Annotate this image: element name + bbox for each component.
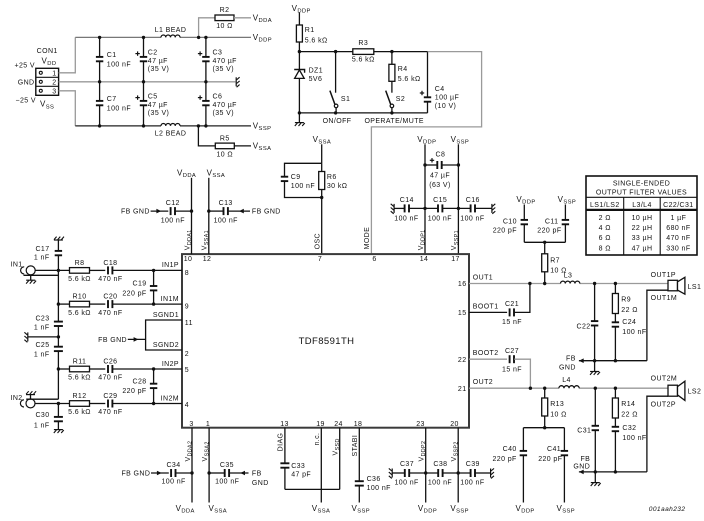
svg-text:17: 17	[451, 256, 460, 263]
svg-text:L1 BEAD: L1 BEAD	[155, 27, 187, 34]
pin label VDDA2	[185, 441, 194, 462]
label C38	[428, 461, 452, 487]
label OUT2M	[651, 375, 678, 382]
wire VDDA1	[190, 178, 193, 254]
svg-text:OUT2P: OUT2P	[651, 401, 676, 408]
svg-text:(35 V): (35 V)	[213, 110, 234, 117]
svg-text:1 nF: 1 nF	[34, 325, 50, 332]
svg-text:680 nF: 680 nF	[666, 225, 690, 232]
svg-text:C35: C35	[220, 462, 234, 469]
FB GND arrow sgnd	[98, 337, 145, 344]
svg-text:ON/OFF: ON/OFF	[323, 118, 352, 125]
svg-text:C18: C18	[103, 260, 117, 267]
svg-text:220 pF: 220 pF	[122, 388, 146, 395]
resistor R11	[57, 358, 106, 381]
svg-text:L2 BEAD: L2 BEAD	[155, 130, 187, 137]
svg-text:LS2: LS2	[688, 388, 702, 395]
svg-text:C23: C23	[35, 315, 49, 322]
capacitor C32	[612, 425, 647, 472]
svg-text:C38: C38	[433, 461, 447, 468]
resistor R4	[389, 52, 421, 93]
svg-text:SINGLE-ENDED: SINGLE-ENDED	[613, 180, 670, 187]
connector CON1	[36, 68, 59, 95]
svg-text:14: 14	[420, 256, 429, 263]
label VSSA osc	[313, 135, 332, 146]
svg-text:470 nF: 470 nF	[98, 310, 122, 317]
svg-text:C9: C9	[291, 174, 301, 181]
wire VSSA2	[207, 428, 210, 503]
svg-text:6 Ω: 6 Ω	[599, 235, 611, 242]
svg-text:FB: FB	[566, 356, 576, 363]
svg-text:C30: C30	[35, 412, 49, 419]
svg-text:C26: C26	[103, 358, 117, 365]
svg-text:(35 V): (35 V)	[213, 66, 234, 73]
svg-text:FB: FB	[580, 456, 590, 463]
resistor R8	[35, 260, 105, 283]
capacitor C5	[135, 82, 169, 126]
label VSSP stabi	[352, 504, 371, 515]
svg-text:1 nF: 1 nF	[34, 255, 50, 262]
pin label VSSA2	[202, 441, 211, 461]
svg-text:10 Ω: 10 Ω	[550, 411, 567, 418]
input bus lower	[57, 351, 59, 399]
svg-text:5.6 kΩ: 5.6 kΩ	[352, 56, 375, 63]
svg-text:100 nF: 100 nF	[215, 478, 239, 485]
capacitor C30	[34, 404, 63, 430]
svg-text:100 µF: 100 µF	[435, 94, 459, 101]
wire VSSP rail	[75, 125, 251, 127]
resistor R2	[199, 7, 251, 37]
loudspeaker LS1	[647, 277, 701, 360]
svg-text:47 µF: 47 µF	[430, 173, 450, 180]
capacitor C12	[121, 200, 192, 224]
pin label VDDP2	[419, 441, 428, 462]
svg-text:220 pF: 220 pF	[537, 228, 561, 235]
svg-text:47 µH: 47 µH	[632, 245, 653, 252]
pin label VSSP2	[451, 441, 460, 461]
svg-text:OUT2: OUT2	[473, 379, 493, 386]
connector IN1	[11, 261, 59, 280]
resistor R1	[296, 13, 327, 52]
svg-text:1 µF: 1 µF	[671, 215, 687, 222]
svg-text:L4: L4	[562, 377, 571, 384]
svg-text:C33: C33	[291, 463, 305, 470]
svg-text:5.6 kΩ: 5.6 kΩ	[68, 409, 91, 416]
op-amp U1 TDF8591TH body	[182, 254, 469, 428]
label IN2M	[161, 395, 179, 402]
label VDDA	[253, 13, 272, 24]
wire VDDP2	[425, 428, 427, 503]
chassis tap input bus	[24, 332, 60, 342]
svg-text:DIAG: DIAG	[278, 433, 285, 452]
capacitor C24	[612, 319, 647, 361]
doc number	[649, 506, 686, 513]
svg-text:OUT1M: OUT1M	[651, 295, 678, 302]
svg-text:BOOT1: BOOT1	[473, 303, 499, 310]
svg-text:C22/C31: C22/C31	[663, 202, 693, 209]
svg-text:R1: R1	[305, 27, 315, 34]
ground C30	[54, 430, 64, 433]
svg-text:FB GND: FB GND	[252, 209, 281, 216]
svg-text:22 µH: 22 µH	[632, 225, 653, 232]
svg-text:47 pF: 47 pF	[291, 472, 311, 479]
svg-text:7: 7	[318, 256, 322, 263]
label BOOT1	[473, 303, 499, 310]
capacitor C2	[135, 37, 169, 81]
svg-text:(35 V): (35 V)	[148, 66, 169, 73]
svg-text:C40: C40	[503, 446, 517, 453]
svg-text:IN2M: IN2M	[161, 395, 179, 402]
ground out1	[590, 361, 600, 375]
wire BOOT1	[469, 311, 507, 313]
svg-text:C6: C6	[213, 93, 223, 100]
wire CON1 pin1	[59, 37, 76, 72]
svg-text:C21: C21	[505, 301, 519, 308]
svg-text:100 nF: 100 nF	[460, 216, 484, 223]
pin numbers left	[185, 270, 193, 409]
wire nc VSSA	[320, 428, 322, 503]
svg-text:47 µF: 47 µF	[148, 58, 168, 65]
CON1 labels	[15, 48, 58, 110]
svg-text:C36: C36	[367, 476, 381, 483]
svg-text:22 Ω: 22 Ω	[621, 307, 638, 314]
svg-text:C17: C17	[35, 246, 49, 253]
switch S1	[330, 52, 350, 113]
svg-text:330 nF: 330 nF	[666, 245, 690, 252]
svg-text:470 nF: 470 nF	[98, 409, 122, 416]
capacitor C17	[34, 237, 64, 271]
svg-text:16: 16	[458, 281, 467, 288]
label VSSP bottom	[450, 504, 469, 515]
svg-text:C22: C22	[577, 323, 591, 330]
svg-text:470 nF: 470 nF	[666, 235, 690, 242]
resistor R10	[57, 294, 106, 317]
svg-text:R13: R13	[550, 401, 564, 408]
FB GND rail out1	[559, 356, 647, 372]
svg-text:SGND1: SGND1	[153, 312, 179, 319]
ferrite bead L2	[155, 124, 187, 138]
junction dots OUT1	[528, 282, 617, 285]
svg-text:C1: C1	[107, 52, 117, 59]
svg-text:220 pF: 220 pF	[538, 456, 562, 463]
capacitor C9	[281, 163, 322, 197]
svg-text:470 nF: 470 nF	[98, 276, 122, 283]
wire VSSA to osc	[321, 144, 323, 163]
label VSSP	[253, 122, 272, 133]
svg-text:3: 3	[52, 89, 56, 96]
wire mode rail	[299, 51, 427, 53]
capacitor C22	[577, 284, 599, 361]
wire OUT1	[469, 283, 668, 285]
label OUT1	[473, 274, 493, 281]
pin label VDDP1	[418, 229, 427, 250]
svg-text:R10: R10	[72, 294, 86, 301]
svg-text:2: 2	[185, 351, 189, 358]
svg-text:GND: GND	[252, 480, 269, 487]
svg-text:1: 1	[52, 71, 56, 78]
resistor R13	[542, 388, 567, 428]
svg-text:C15: C15	[433, 197, 447, 204]
wire VSSP1	[457, 144, 459, 254]
svg-text:1 nF: 1 nF	[34, 351, 50, 358]
svg-text:10 Ω: 10 Ω	[217, 152, 234, 159]
svg-text:GND: GND	[18, 80, 35, 87]
label C15	[428, 197, 452, 223]
svg-text:13: 13	[280, 421, 289, 428]
svg-text:C4: C4	[435, 86, 445, 93]
label OUT1P	[651, 272, 676, 279]
svg-text:IN1: IN1	[11, 261, 23, 268]
snubber join ch2	[523, 426, 564, 429]
svg-text:C19: C19	[133, 281, 147, 288]
svg-text:100 nF: 100 nF	[214, 217, 238, 224]
svg-text:5.6 kΩ: 5.6 kΩ	[68, 375, 91, 382]
svg-text:FB GND: FB GND	[121, 471, 150, 478]
label OPERATE/MUTE	[364, 118, 424, 125]
svg-text:21: 21	[458, 386, 467, 393]
capacitor C19	[122, 270, 157, 304]
svg-text:24: 24	[334, 421, 343, 428]
capacitor C40	[492, 428, 527, 503]
wire CON1 pin2 GND rail	[59, 81, 236, 83]
svg-text:OPERATE/MUTE: OPERATE/MUTE	[364, 118, 424, 125]
label VSSA	[253, 142, 272, 153]
svg-text:C37: C37	[400, 461, 414, 468]
svg-text:20: 20	[450, 421, 459, 428]
capacitor C18	[57, 260, 182, 283]
svg-text:33 µH: 33 µH	[632, 235, 653, 242]
FB GND rail out2	[573, 456, 646, 474]
svg-text:C34: C34	[166, 462, 180, 469]
svg-text:C12: C12	[166, 200, 180, 207]
svg-text:220 pF: 220 pF	[492, 456, 516, 463]
svg-text:GND: GND	[559, 364, 576, 371]
chassis ground GND rail	[236, 77, 239, 87]
label OUT2P	[651, 401, 676, 408]
resistor R12	[35, 393, 105, 416]
ground DZ1	[295, 113, 305, 126]
capacitor C1	[96, 37, 131, 81]
wire MODE route	[371, 52, 481, 255]
label IN1M	[161, 296, 179, 303]
svg-text:IN1M: IN1M	[161, 296, 179, 303]
svg-text:−25 V: −25 V	[16, 97, 37, 104]
wire snubber join	[524, 241, 565, 244]
svg-text:C13: C13	[219, 200, 233, 207]
svg-text:C10: C10	[503, 218, 517, 225]
svg-text:22 Ω: 22 Ω	[621, 412, 638, 419]
ground out2	[591, 472, 601, 486]
svg-text:C14: C14	[400, 197, 414, 204]
label BOOT2	[473, 350, 499, 357]
svg-text:R2: R2	[220, 7, 230, 14]
svg-text:10 µH: 10 µH	[632, 215, 653, 222]
junction dots OUT2	[529, 387, 617, 390]
svg-text:470 µF: 470 µF	[213, 102, 237, 109]
svg-text:30 kΩ: 30 kΩ	[327, 183, 347, 190]
svg-text:5.6 kΩ: 5.6 kΩ	[305, 37, 328, 44]
pin label MODE	[364, 227, 371, 250]
svg-text:2: 2	[52, 80, 56, 87]
pin label OSC	[315, 233, 322, 249]
svg-text:C31: C31	[577, 427, 591, 434]
wire CON1 pin3	[59, 91, 76, 126]
zener diode DZ1	[294, 52, 323, 113]
junction dots power rails	[98, 36, 208, 128]
capacitor C13	[209, 200, 281, 224]
svg-text:100 nF: 100 nF	[161, 217, 185, 224]
svg-text:19: 19	[316, 421, 325, 428]
capacitor C3	[198, 37, 237, 81]
label VDDA top	[177, 169, 196, 180]
switch S2	[386, 91, 405, 113]
wire VDDP1	[424, 144, 426, 254]
resistor R9	[612, 284, 637, 323]
svg-text:100 nF: 100 nF	[291, 183, 315, 190]
wire OUT2	[469, 387, 668, 389]
svg-text:4: 4	[185, 402, 189, 409]
pin label VSSP1	[451, 230, 460, 250]
svg-text:IN2P: IN2P	[162, 361, 179, 368]
capacitor C26	[98, 358, 182, 381]
svg-text:470 µF: 470 µF	[213, 58, 237, 65]
label VDDP	[253, 33, 272, 44]
svg-text:100 nF: 100 nF	[460, 480, 484, 487]
svg-text:12: 12	[203, 256, 212, 263]
svg-text:C41: C41	[547, 446, 561, 453]
svg-text:OUT1: OUT1	[473, 274, 493, 281]
label VDDA bottom	[176, 504, 195, 515]
svg-text:R4: R4	[398, 66, 408, 73]
svg-text:FB GND: FB GND	[121, 209, 150, 216]
label OUT1M	[651, 295, 678, 302]
svg-text:OUT2M: OUT2M	[651, 375, 678, 382]
pin numbers bottom	[189, 421, 458, 428]
capacitor C7	[96, 82, 131, 126]
svg-text:220 pF: 220 pF	[122, 290, 146, 297]
svg-text:C39: C39	[466, 461, 480, 468]
label SGND2	[153, 342, 179, 349]
svg-text:R12: R12	[72, 393, 86, 400]
label IN1P	[162, 262, 179, 269]
svg-text:CON1: CON1	[37, 48, 58, 55]
svg-text:R6: R6	[327, 174, 337, 181]
svg-text:C29: C29	[103, 393, 117, 400]
pin label VSSD	[333, 438, 342, 455]
svg-text:STABI: STABI	[352, 435, 359, 457]
capacitor C6	[198, 82, 237, 126]
svg-text:IN2: IN2	[11, 395, 23, 402]
svg-text:L3/L4: L3/L4	[632, 202, 652, 209]
svg-text:C16: C16	[466, 197, 480, 204]
svg-text:S1: S1	[341, 96, 350, 103]
svg-text:001aah232: 001aah232	[649, 506, 686, 513]
svg-text:FB GND: FB GND	[98, 337, 127, 344]
svg-text:C28: C28	[133, 378, 147, 385]
svg-text:2 Ω: 2 Ω	[599, 215, 611, 222]
svg-text:R3: R3	[358, 40, 368, 47]
label VDDP bottom	[418, 504, 437, 515]
svg-text:15 nF: 15 nF	[502, 366, 522, 373]
pin label VDDA1	[184, 229, 193, 250]
svg-text:23: 23	[416, 421, 425, 428]
label VSSP dec	[451, 135, 470, 146]
svg-text:C2: C2	[148, 49, 158, 56]
svg-text:100 nF: 100 nF	[394, 216, 418, 223]
wire bus to IN2 sleeve	[26, 398, 58, 400]
label VSSA nc	[312, 504, 331, 515]
svg-text:5.6 kΩ: 5.6 kΩ	[68, 310, 91, 317]
svg-text:3: 3	[189, 421, 193, 428]
svg-text:GND: GND	[573, 464, 590, 471]
label VDDP ch2	[516, 504, 535, 515]
svg-text:100 nF: 100 nF	[367, 485, 391, 492]
svg-text:10: 10	[184, 256, 193, 263]
svg-text:C5: C5	[148, 93, 158, 100]
capacitor C33 DIAG loop	[280, 428, 339, 490]
svg-text:470 nF: 470 nF	[98, 375, 122, 382]
svg-text:10 Ω: 10 Ω	[216, 23, 233, 30]
svg-text:OUTPUT FILTER VALUES: OUTPUT FILTER VALUES	[596, 190, 687, 197]
resistor R14	[612, 388, 637, 427]
svg-text:+25 V: +25 V	[15, 63, 36, 70]
svg-text:5V6: 5V6	[309, 76, 323, 83]
label OUT2	[473, 379, 493, 386]
ferrite bead L1	[155, 27, 187, 38]
svg-text:IN1P: IN1P	[162, 262, 179, 269]
capacitor C28	[122, 369, 157, 404]
label C39	[460, 461, 484, 487]
capacitor C34	[121, 462, 192, 485]
table output filter values	[586, 176, 697, 255]
resistor R5	[198, 126, 251, 159]
svg-text:S2: S2	[396, 96, 405, 103]
svg-text:9: 9	[185, 304, 189, 311]
svg-text:C7: C7	[107, 96, 117, 103]
label VSSA bottom	[209, 504, 228, 515]
label C37	[394, 461, 418, 487]
svg-text:C32: C32	[622, 425, 636, 432]
svg-text:220 pF: 220 pF	[493, 228, 517, 235]
loudspeaker LS2	[647, 381, 701, 472]
svg-text:C27: C27	[505, 348, 519, 355]
svg-text:C3: C3	[213, 49, 223, 56]
capacitor C31	[577, 388, 599, 472]
svg-text:L3: L3	[564, 273, 573, 280]
svg-text:5: 5	[185, 367, 189, 374]
label VSSP ch2	[557, 504, 576, 515]
decoupling row C37 C38 C39	[389, 468, 494, 478]
svg-text:6: 6	[372, 256, 376, 263]
label VDDP dec	[417, 135, 436, 146]
svg-text:C11: C11	[545, 218, 559, 225]
svg-text:47 µF: 47 µF	[148, 102, 168, 109]
pin label nc	[314, 433, 321, 446]
wire VSSP2	[457, 428, 459, 503]
resistor R6	[319, 163, 348, 254]
svg-text:5.6 kΩ: 5.6 kΩ	[68, 276, 91, 283]
svg-text:C8: C8	[436, 151, 446, 158]
decoupling row C14 C15 C16	[391, 204, 496, 214]
svg-text:R14: R14	[621, 401, 635, 408]
svg-text:R9: R9	[621, 297, 631, 304]
svg-text:TDF8591TH: TDF8591TH	[299, 336, 355, 347]
capacitor C4	[420, 52, 459, 113]
label ON/OFF	[323, 118, 352, 125]
capacitor C23	[34, 315, 63, 346]
svg-text:FB: FB	[252, 471, 262, 478]
pin numbers right	[458, 281, 467, 393]
